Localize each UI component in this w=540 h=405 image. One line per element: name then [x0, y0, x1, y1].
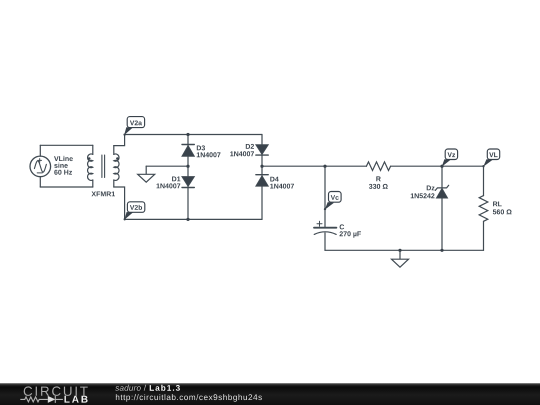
- wire source bottom lead: [39, 177, 41, 187]
- label C 270 uF: [340, 224, 362, 237]
- wire zener top lead: [441, 166, 443, 188]
- wire RL bottom lead: [483, 221, 485, 250]
- label R 330 ohm: [369, 176, 388, 189]
- junction node between D3 and D1: [186, 165, 189, 168]
- wire right bridge column: [261, 135, 263, 220]
- footer logo LAB: [65, 396, 88, 403]
- voltage source VLine: [30, 156, 51, 177]
- wire secondary top to V2a corner: [114, 135, 125, 146]
- junction bottom bridge rail at D1: [186, 218, 189, 221]
- diode D3: [182, 145, 194, 157]
- wire output rail left: [262, 165, 366, 167]
- label RL 560 ohm: [493, 202, 512, 215]
- wire source top lead: [39, 145, 41, 156]
- capacitor C: [314, 221, 336, 234]
- label D1 1N4007: [157, 177, 181, 189]
- node flag Vz: [441, 149, 458, 167]
- label VLine sine 60 Hz: [54, 156, 73, 175]
- footer bar: [0, 383, 540, 405]
- wire secondary bottom to V2b corner: [114, 187, 125, 219]
- wire left bridge column: [187, 135, 189, 220]
- junction capacitor branch: [323, 165, 326, 168]
- wire output rail right: [391, 165, 484, 167]
- wire bottom bridge rail: [125, 218, 262, 220]
- junction output node between D2 and D4: [260, 165, 263, 168]
- footer title slash: [144, 385, 146, 391]
- ground left: [138, 166, 155, 182]
- resistor R: [366, 162, 390, 171]
- ground bottom: [392, 250, 409, 267]
- junction zener top node Vz: [440, 165, 443, 168]
- footer logo CIRCUIT: [24, 386, 88, 396]
- node flag V2a: [123, 117, 144, 136]
- resistor RL: [479, 196, 488, 222]
- wire capacitor bottom lead: [324, 233, 326, 250]
- label D2 1N4007: [230, 144, 254, 156]
- footer title Lab1.3: [150, 385, 180, 391]
- node flag Vc: [324, 192, 341, 211]
- wire RL top lead: [483, 166, 485, 195]
- junction top rail at D3: [186, 133, 189, 136]
- wire top rail: [125, 134, 262, 136]
- zener diode Dz: [435, 185, 448, 198]
- node flag VL: [482, 149, 499, 167]
- label Dz 1N5242: [411, 186, 435, 199]
- diode D2: [256, 145, 268, 155]
- wire bottom left: [40, 186, 93, 188]
- label D3 1N4007: [197, 145, 221, 157]
- transformer XFMR1: [88, 145, 119, 187]
- wire mid rail to ground: [146, 165, 188, 167]
- wire zener bottom lead: [441, 198, 443, 250]
- footer title saduro: [115, 385, 141, 391]
- node flag V2b: [124, 202, 145, 221]
- junction zener bottom: [440, 249, 443, 252]
- label XFMR1: [92, 192, 116, 197]
- label D4 1N4007: [270, 177, 294, 189]
- wire capacitor top lead: [324, 166, 326, 227]
- wire bottom rail: [325, 249, 484, 251]
- footer url: [116, 394, 262, 402]
- wire top left: [40, 144, 93, 146]
- diode D4: [256, 175, 268, 186]
- footer logo circuit symbol: [20, 396, 63, 403]
- junction ground branch: [398, 249, 401, 252]
- diode D1: [182, 177, 194, 188]
